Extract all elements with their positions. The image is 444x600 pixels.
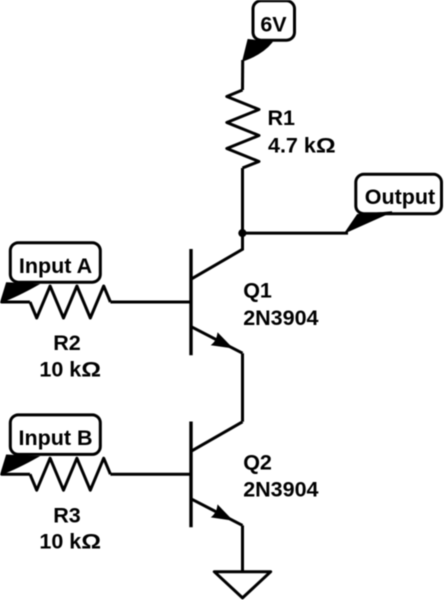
wire Q1 emitter to Q2 collector [241,353,244,422]
transistor Q2 base bar [189,422,192,528]
svg-text:6V: 6V [260,13,287,37]
input A flag tail [1,283,39,303]
resistor R3 [30,458,110,490]
svg-text:Q1: Q1 [243,279,272,303]
svg-text:Q2: Q2 [243,451,272,475]
wire R2 to Q1 base [110,301,191,304]
transistor Q1 base bar [189,249,192,355]
node output junction [238,229,246,237]
input A flag box [10,243,100,283]
wire R3 to Q2 base [110,473,191,476]
transistor Q1 emitter arrow [212,333,232,348]
output flag tail [345,212,392,233]
wire input B to R3 [1,473,30,476]
ground [214,572,270,598]
transistor Q2 emitter diagonal [191,499,243,526]
svg-text:Input B: Input B [18,426,92,450]
transistor Q1 collector diagonal [191,233,243,279]
svg-text:2N3904: 2N3904 [243,306,318,330]
svg-text:Input A: Input A [19,254,92,278]
svg-text:10 kΩ: 10 kΩ [39,530,101,554]
transistor Q1 emitter diagonal [191,327,243,354]
svg-text:4.7 kΩ: 4.7 kΩ [268,133,336,157]
svg-text:10 kΩ: 10 kΩ [39,357,101,381]
wire 6V to R1 [241,60,244,90]
transistor Q2 collector diagonal [191,422,243,452]
wire input A to R2 [1,301,30,304]
input B flag box [10,415,100,455]
power flag 6V tail [243,40,272,62]
svg-text:R1: R1 [268,106,296,130]
resistor R2 [30,286,110,318]
wire Q2 emitter to ground [241,525,244,571]
svg-text:R3: R3 [53,504,81,528]
wire node to output flag [243,232,349,235]
transistor Q2 emitter arrow [212,506,232,521]
svg-text:R2: R2 [53,331,81,355]
input B flag tail [1,455,39,475]
resistor R1 [227,90,259,168]
power flag 6V box [253,1,295,40]
output flag box [356,174,442,213]
wire R1 to Q1 collector [241,168,244,249]
svg-text:Output: Output [365,185,435,209]
svg-text:2N3904: 2N3904 [243,478,318,502]
